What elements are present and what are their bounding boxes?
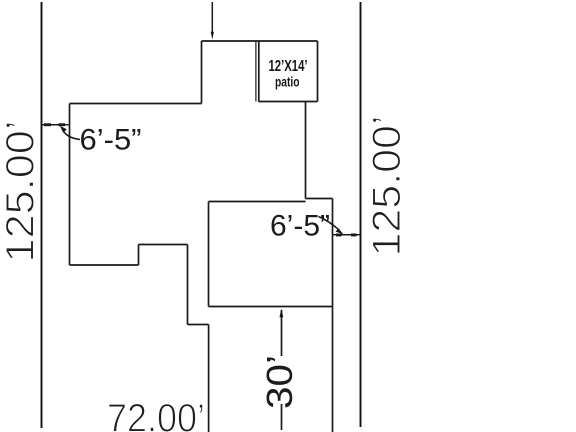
- svg-text:12’X14’: 12’X14’: [269, 58, 308, 75]
- svg-text:125.00’: 125.00’: [0, 120, 43, 262]
- svg-text:patio: patio: [275, 74, 300, 90]
- svg-text:125.00’: 125.00’: [365, 116, 409, 257]
- svg-text:72.00’: 72.00’: [107, 397, 205, 432]
- svg-text:6’-5”: 6’-5”: [80, 124, 142, 157]
- svg-text:6’-5”: 6’-5”: [270, 210, 330, 243]
- svg-text:30’: 30’: [259, 355, 300, 409]
